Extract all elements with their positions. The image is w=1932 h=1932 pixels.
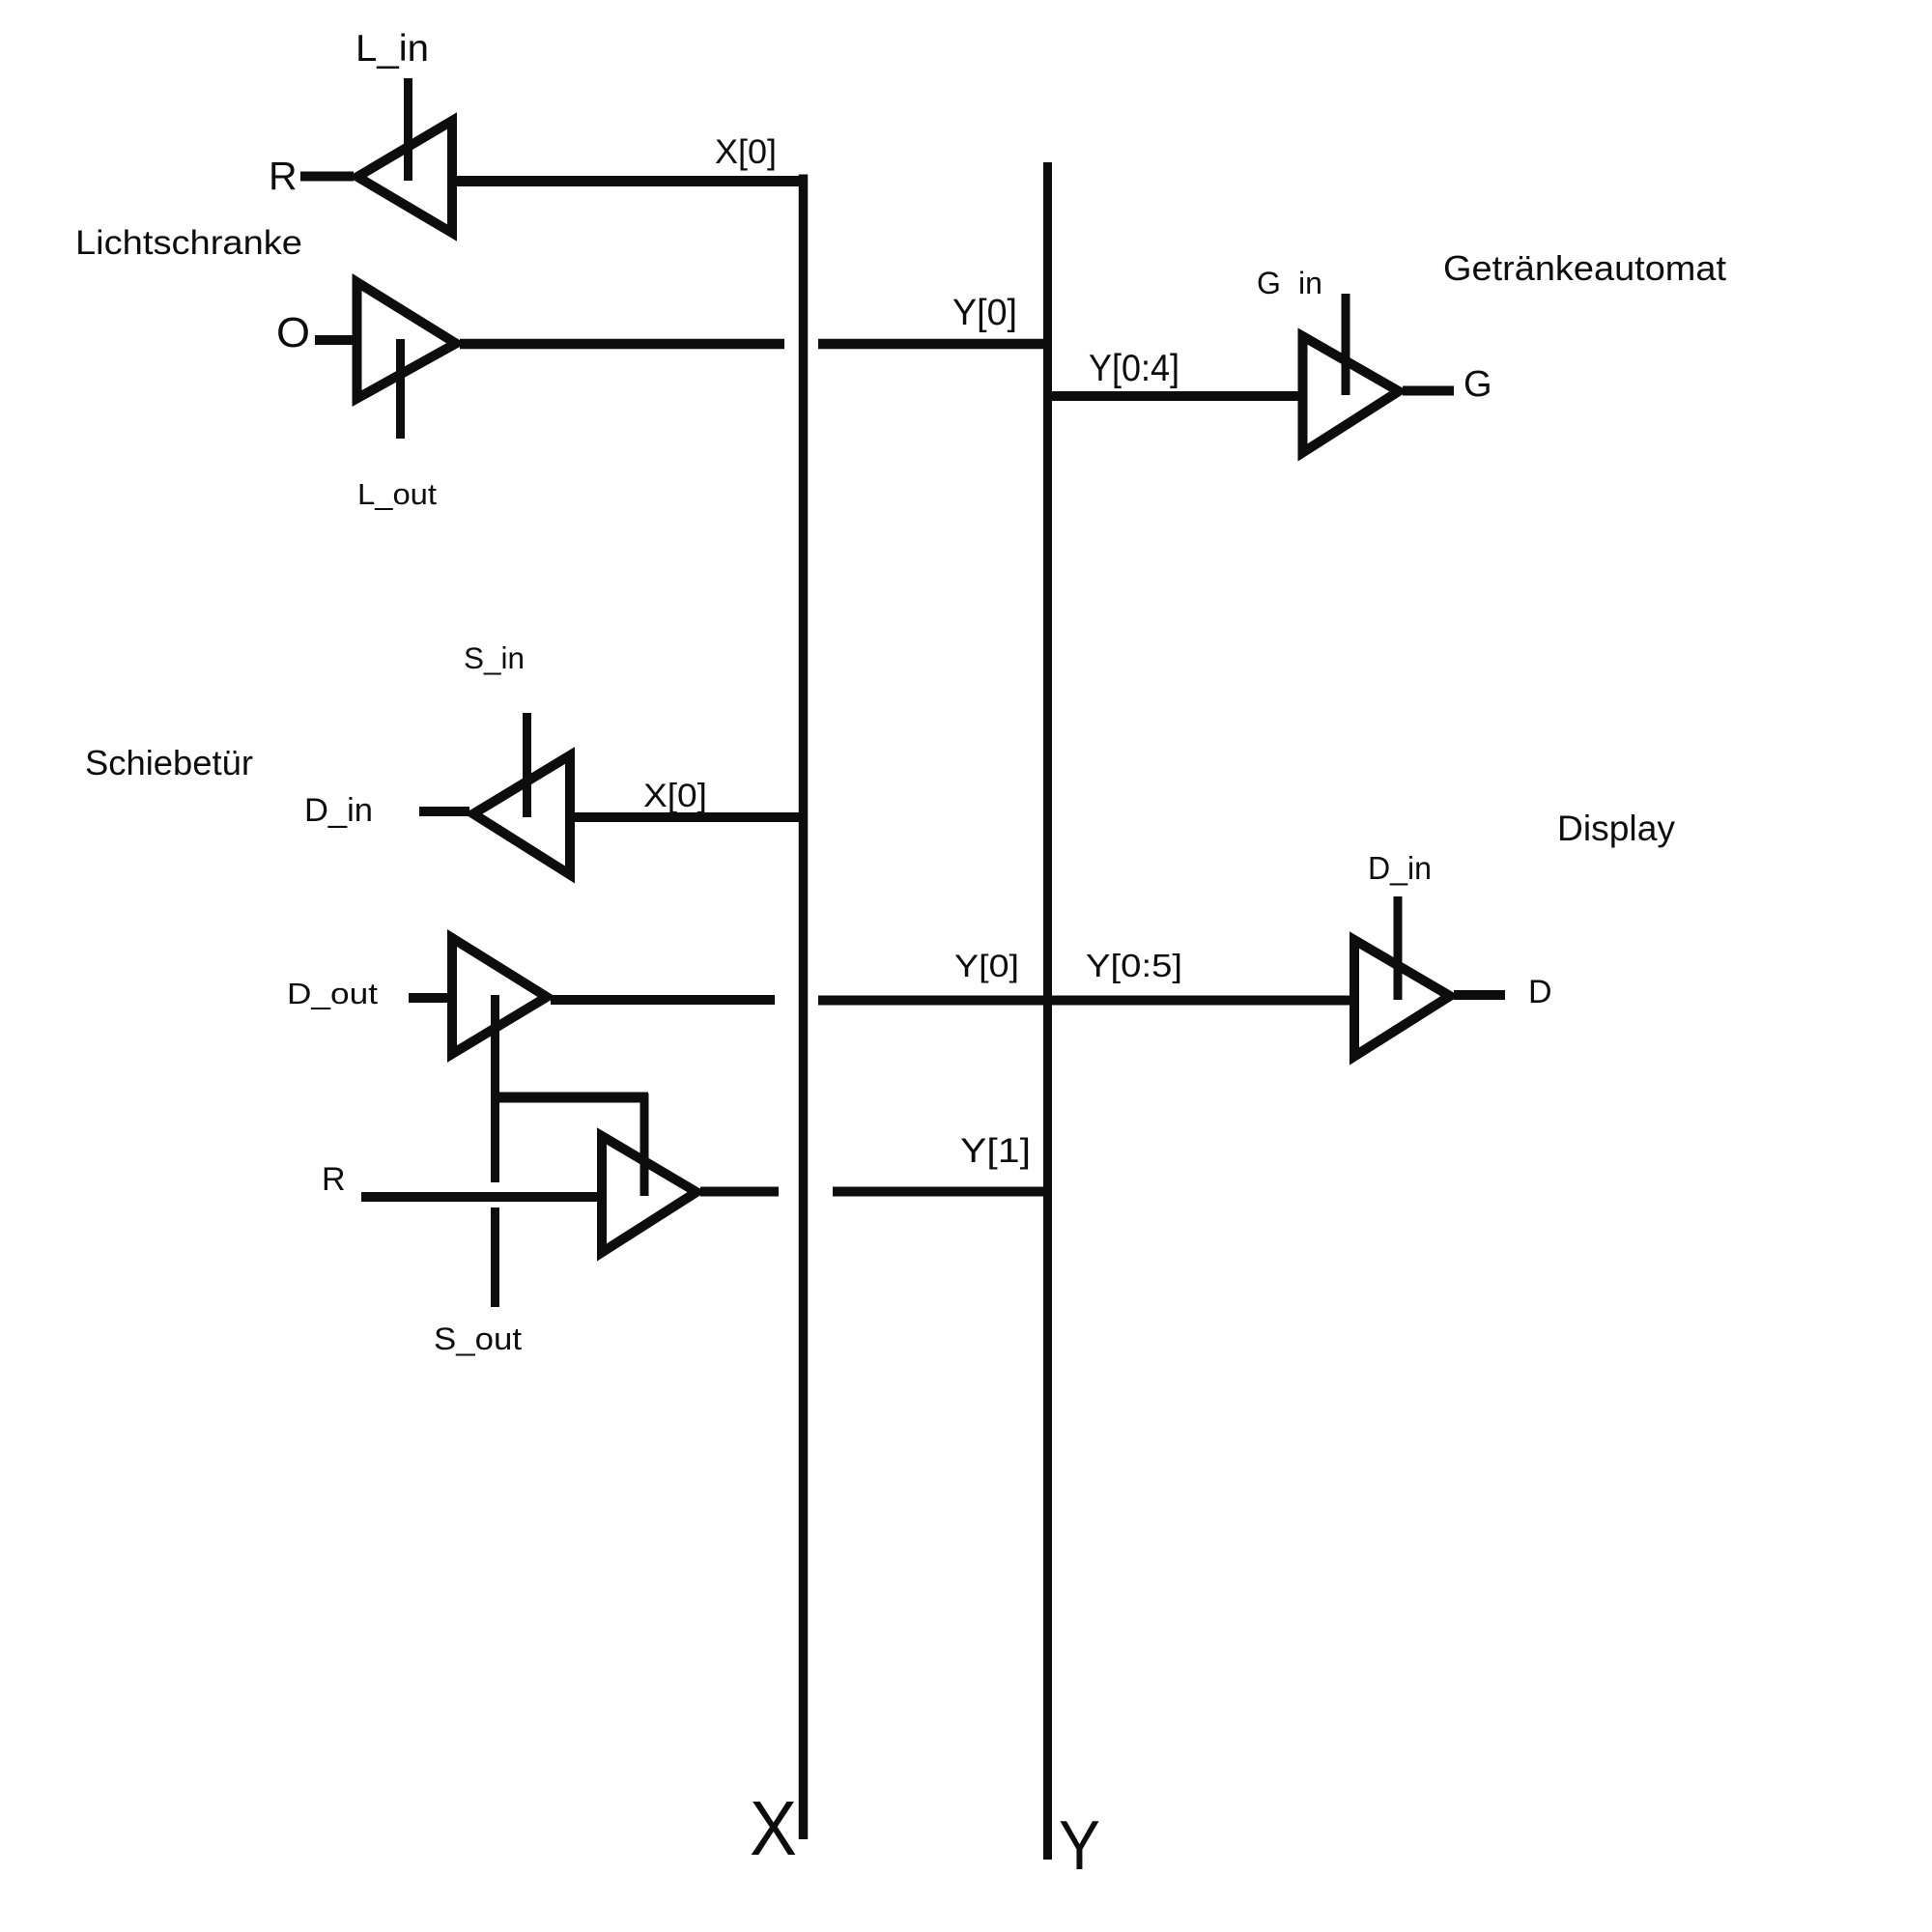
svg-text:D_in: D_in [1368,850,1432,886]
svg-text:Y: Y [1059,1807,1100,1885]
svg-text:X[0]: X[0] [715,133,777,171]
svg-text:R: R [322,1161,346,1198]
wire D_in to U4 tip [419,807,469,816]
svg-text:L_in: L_in [355,28,429,70]
enable pin S_out of U5 (upper part) [491,995,499,1182]
wire X[0] from bus X to U4 [570,812,804,822]
wire X[0] from U1 to bus X [452,176,808,186]
svg-text:Lichtschranke: Lichtschranke [75,224,302,262]
wire R to U1 tip [300,172,354,182]
svg-text:X[0]: X[0] [643,778,707,814]
enable drop wire into U7 [640,1094,649,1196]
svg-text:L_out: L_out [357,477,437,511]
svg-text:Y[0:5]: Y[0:5] [1086,948,1182,983]
wire D_out to U5 [409,993,452,1003]
buffer U7 (Schiebetuer R, right-pointing tri-state) [602,1136,696,1253]
buffer U2 L_out (Lichtschranke output, right-pointing tri-state) [357,282,457,399]
buffer U1 L_in (Lichtschranke input, left-pointing tri-state) [357,121,452,233]
svg-text:G: G [1257,266,1281,300]
svg-text:Y[0:4]: Y[0:4] [1089,348,1179,389]
wire O to U2 [315,335,357,345]
svg-text:D: D [1528,974,1552,1010]
wire Y[1] from U7 to bus Y (left of bus X) [700,1187,779,1197]
buffer U6 Display D (right-pointing tri-state) [1354,940,1450,1057]
svg-text:Schiebetür: Schiebetür [85,743,253,782]
enable pin S_in of U4 [523,713,531,817]
buffer U4 S_in (Schiebetuer input, left-pointing tri-state) [473,755,570,875]
wire Y[0:5] from bus Y to U6 [1048,996,1355,1006]
svg-text:Y[0]: Y[0] [954,949,1019,983]
svg-text:R: R [269,154,298,198]
wire Y[0] from U5 to bus Y (right of bus X) [818,996,1048,1006]
wire Y[1] from U7 to bus Y (right of bus X) [833,1187,1052,1197]
svg-text:in: in [1298,266,1322,300]
enable pin L_out of U2 [396,339,405,439]
bus X [799,175,809,1840]
svg-text:Getränkeautomat: Getränkeautomat [1443,248,1726,288]
buffer U3 G (Getraenkeautomat, right-pointing tri-state) [1303,336,1400,453]
svg-text:Y[1]: Y[1] [960,1131,1031,1170]
wire Y[0] from U2 to bus Y (right of bus X) [818,339,1048,350]
svg-text:D_in: D_in [304,792,373,829]
wire Y[0] from U2 to bus Y (left of bus X) [460,339,784,350]
wire from S_out enable to U7 enable (horizontal jog) [491,1093,648,1103]
svg-text:S_out: S_out [434,1321,522,1356]
svg-text:D_out: D_out [287,977,378,1010]
buffer U5 D_out (Schiebetuer output, right-pointing tri-state) [452,938,547,1054]
svg-text:X: X [750,1785,797,1871]
enable pin S_out of U5 (lower part, below R wire crossing) [491,1207,499,1307]
wire Y[0] from U5 to bus Y (left of bus X) [551,995,775,1005]
wire R to U7 [361,1192,602,1202]
wire D output [1454,990,1505,1000]
wire G output [1403,386,1454,396]
wire Y[0:4] from bus Y to U3 [1052,391,1303,401]
svg-text:Display: Display [1557,809,1675,848]
svg-text:Y[0]: Y[0] [952,293,1017,333]
svg-text:G: G [1463,364,1492,405]
enable pin G_in of U3 [1342,294,1350,395]
enable pin D_in of U6 [1394,896,1403,1000]
enable pin L_in of U1 [404,78,412,181]
svg-text:O: O [276,309,310,356]
svg-text:S_in: S_in [464,640,525,675]
bus Y [1043,162,1052,1860]
